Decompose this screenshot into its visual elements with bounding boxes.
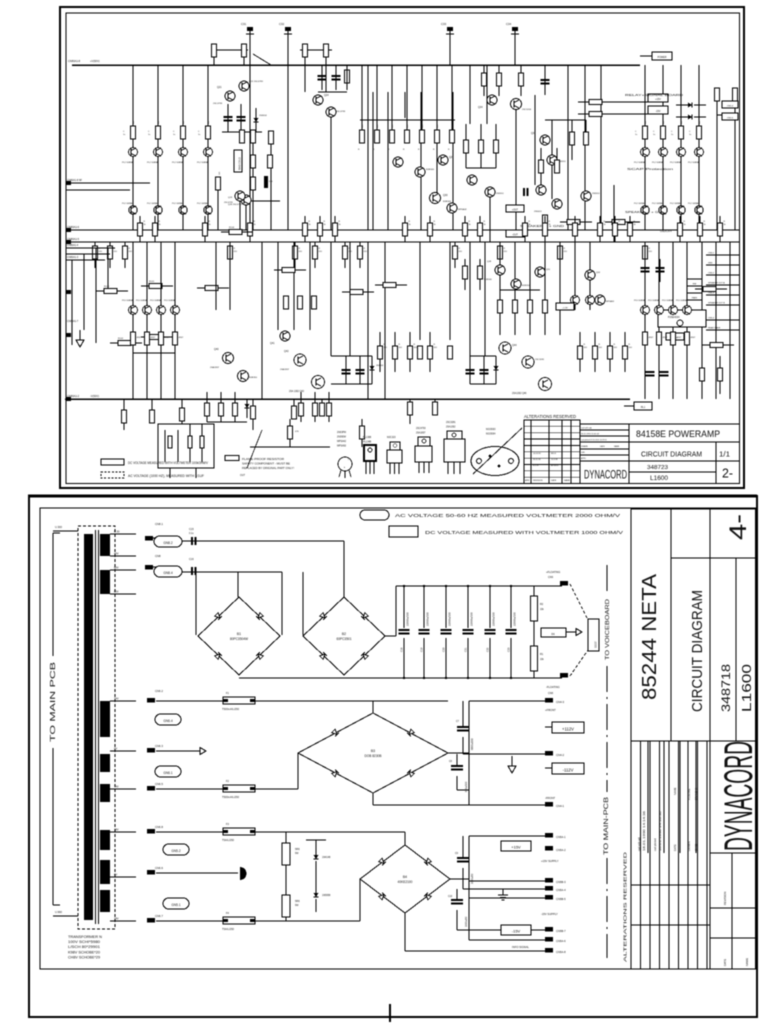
- resistor Rm320: [319, 216, 321, 223]
- resistor Rk5: [268, 155, 273, 168]
- wire ac1: [182, 540, 344, 542]
- transistor Ql161: [157, 306, 166, 315]
- connector CN5A-8: [545, 948, 553, 953]
- resistor Ro161: [159, 332, 164, 345]
- resistor Rq610: [609, 332, 611, 346]
- svg-text:60PC3501: 60PC3501: [336, 637, 351, 641]
- capacitor C18: [403, 586, 405, 628]
- connector CN5A-1: [545, 833, 553, 838]
- svg-text:-FRONT: -FRONT: [545, 796, 556, 800]
- resistor Rq395: [394, 332, 396, 346]
- transistor Qr645: [641, 306, 650, 315]
- svg-text:1u: 1u: [148, 134, 150, 136]
- svg-text:CIRCUIT DIAGRAM: CIRCUIT DIAGRAM: [689, 590, 706, 712]
- svg-text:Q21: Q21: [217, 86, 222, 89]
- resistor Rp4: [312, 296, 317, 309]
- svg-text:ALTERATIONS RESERVED: ALTERATIONS RESERVED: [623, 851, 629, 962]
- wire ac1 drop: [343, 541, 345, 597]
- wire vertical x161 lower: [160, 242, 162, 399]
- transistor Q38: [536, 185, 546, 195]
- wire right-edge CN3-2: [706, 274, 739, 276]
- wire driver feed: [360, 119, 455, 121]
- wire vertical x702 lower: [701, 242, 703, 399]
- wire b3 ac1 drop: [372, 701, 374, 713]
- inductor Lo1: [164, 430, 166, 462]
- connector GN6 oval B: [155, 766, 181, 777]
- node input arrow: [79, 330, 81, 340]
- svg-text:PL5 5088A: PL5 5088A: [150, 299, 161, 302]
- svg-text:DATE: DATE: [673, 844, 677, 851]
- svg-text:1u: 1u: [198, 134, 200, 136]
- wire vertical x437 upper: [436, 92, 438, 193]
- resistor Rg699: [697, 126, 702, 139]
- resistor Ri4: [612, 220, 625, 225]
- node C33 stub: [449, 30, 451, 65]
- resistor Rd6: [451, 65, 453, 130]
- wire relay bus: [614, 101, 648, 103]
- svg-text:CN8: CN8: [155, 554, 161, 558]
- wire vertical x716 lower: [715, 242, 717, 399]
- svg-text:1N4148: 1N4148: [322, 856, 331, 859]
- svg-text:CN5B-7: CN5B-7: [556, 929, 566, 933]
- svg-text:1u: 1u: [671, 134, 673, 136]
- svg-text:MJE350: MJE350: [249, 377, 258, 379]
- resistor R1: [531, 646, 538, 671]
- top page outer border: [60, 7, 744, 488]
- resistor Rn560: [559, 242, 561, 246]
- net PA9K box: [687, 293, 702, 300]
- wire f3 in: [162, 831, 223, 833]
- svg-text:C20: C20: [443, 647, 446, 652]
- wire f1 in: [162, 700, 223, 702]
- svg-text:Q42: Q42: [284, 350, 289, 353]
- svg-text:CN6.7: CN6.7: [155, 914, 163, 918]
- svg-text:680u/100: 680u/100: [465, 781, 468, 792]
- svg-text:CH8V SCHOBE*29: CH8V SCHOBE*29: [68, 956, 100, 960]
- resistor R5: [285, 832, 287, 843]
- wire vertical x735 upper: [734, 101, 736, 230]
- diode D42: [494, 366, 499, 370]
- wire vertical x368 upper: [367, 65, 369, 230]
- svg-text:0V: 0V: [114, 747, 117, 751]
- resistor R29: [345, 70, 350, 83]
- svg-text:AC VOLTAGE 50-60 HZ MEASURED V: AC VOLTAGE 50-60 HZ MEASURED VOLTMETER 2…: [395, 513, 620, 518]
- transistor Qg681: [677, 148, 686, 157]
- svg-text:348718: 348718: [719, 664, 733, 712]
- bridge rectifier B1: [198, 597, 280, 675]
- resistor Rq595: [594, 332, 596, 346]
- title block top page: [580, 424, 740, 484]
- svg-text:C10: C10: [448, 896, 453, 898]
- resistor Ro147: [145, 332, 150, 345]
- svg-text:PL5 5088A: PL5 5088A: [164, 299, 175, 302]
- svg-text:348723: 348723: [647, 465, 668, 471]
- svg-text:APM: APM: [525, 479, 530, 482]
- wire d7 top: [306, 839, 326, 841]
- resistor Rd1: [376, 65, 378, 130]
- ground 15v: [502, 889, 504, 895]
- wire vertical x385 lower: [384, 242, 386, 399]
- wire cn bundle 3: [66, 259, 105, 261]
- wire vertical x500 lower: [499, 242, 501, 335]
- svg-text:+FLOATING: +FLOATING: [546, 570, 560, 574]
- resistor R26: [242, 44, 247, 57]
- net OUT2 box: [506, 230, 524, 237]
- svg-text:4-: 4-: [725, 514, 752, 540]
- svg-text:CN80A1-6: CN80A1-6: [67, 225, 80, 229]
- net mid rail B: [66, 241, 740, 243]
- transistor Q42: [294, 354, 306, 366]
- wire vertical x717 upper: [716, 101, 718, 230]
- svg-text:C32: C32: [279, 22, 285, 26]
- resistor Rk1: [240, 130, 245, 143]
- wire front - out: [372, 793, 374, 805]
- svg-text:Q26 2SC4793: Q26 2SC4793: [228, 204, 243, 206]
- svg-text:PL130B: PL130B: [363, 437, 372, 439]
- svg-text:MG.K: MG.K: [551, 453, 557, 455]
- svg-text:T500mA/L/250: T500mA/L/250: [222, 795, 240, 799]
- dashed link bottom: [570, 650, 588, 676]
- resistor Rd5: [436, 65, 438, 130]
- resistor Rn125: [124, 242, 126, 246]
- capacitor C7: [457, 726, 469, 728]
- transistor Q41: [280, 331, 290, 341]
- connector CN5A-4: [545, 886, 553, 891]
- svg-text:5R6: 5R6: [295, 900, 300, 903]
- transistor Q40L: [223, 353, 234, 364]
- net RM box: [687, 279, 702, 286]
- capacitor C41: [342, 369, 351, 371]
- wire vertical x262 lower: [261, 242, 263, 399]
- svg-text:1k: 1k: [434, 224, 436, 226]
- capacitor C29: [523, 188, 525, 196]
- fuse F1: [223, 697, 255, 704]
- transistor Q158u: [154, 148, 163, 157]
- svg-text:C16: C16: [189, 558, 194, 561]
- resistor Re1: [480, 124, 482, 140]
- svg-text:U.30: U.30: [114, 530, 120, 534]
- svg-text:PL2 5088A: PL2 5088A: [197, 202, 208, 205]
- diode D41: [370, 366, 375, 370]
- wire right-edge CN3-3: [706, 294, 739, 296]
- svg-text:1k: 1k: [254, 224, 256, 226]
- svg-text:B1: B1: [237, 632, 241, 636]
- svg-text:CN80A1-8 NF: CN80A1-8 NF: [67, 179, 83, 182]
- svg-text:PL2 5088A: PL2 5088A: [122, 202, 133, 205]
- node C31 stub: [249, 30, 251, 65]
- wire vertical x288 upper: [287, 65, 289, 230]
- title block bottom page: [631, 509, 756, 969]
- transformer primary winding: [84, 534, 93, 920]
- svg-text:2N390W: 2N390W: [337, 437, 347, 439]
- resistor Rm680: [679, 216, 681, 223]
- svg-text:2N5551: 2N5551: [592, 193, 600, 195]
- transformer secondary winding 830: [100, 830, 110, 850]
- resistor Ro133: [131, 332, 136, 345]
- resistor Rm545: [544, 216, 546, 223]
- resistor Rs4: [718, 368, 723, 381]
- svg-text:CN5B-5: CN5B-5: [556, 897, 566, 901]
- wire vertical x294 lower: [293, 242, 295, 330]
- capacitor C42: [356, 369, 365, 371]
- wire b3 ac2 drop: [297, 753, 299, 789]
- node frame entry y292: [66, 290, 71, 294]
- transistor Q33: [485, 187, 495, 197]
- transformer tap U.30/534: [110, 533, 136, 535]
- svg-text:1N5958: 1N5958: [322, 894, 331, 897]
- transistor Q37: [547, 155, 557, 165]
- wire vertical x699 upper: [698, 65, 700, 230]
- svg-text:PL2 5088A: PL2 5088A: [688, 161, 699, 164]
- transformer dashed box: [78, 526, 115, 929]
- svg-text:CN5A-1: CN5A-1: [556, 835, 566, 839]
- wire front + out: [469, 700, 545, 702]
- svg-text:CN5A-2: CN5A-2: [556, 848, 566, 852]
- svg-text:Q41: Q41: [270, 342, 275, 345]
- svg-text:BIAS COLD: BIAS COLD: [239, 157, 242, 170]
- wire vertical x515 lower: [514, 242, 516, 335]
- resistor Rm140: [139, 216, 141, 223]
- transistor Q31: [447, 203, 457, 213]
- wire vertical x175 lower: [174, 242, 176, 399]
- svg-text:1k: 1k: [144, 224, 146, 226]
- resistor Rp1: [282, 268, 295, 273]
- svg-text:C22: C22: [487, 647, 490, 652]
- wire left v2: [83, 254, 85, 330]
- resistor Rc158a: [156, 126, 161, 139]
- wire vertical x560 lower: [559, 242, 561, 335]
- svg-text:CHKD: CHKD: [694, 844, 698, 851]
- svg-text:18V: 18V: [114, 917, 119, 921]
- wire vertical x350 lower: [349, 242, 351, 356]
- svg-text:80V: 80V: [114, 566, 119, 570]
- svg-text:1k: 1k: [604, 224, 606, 226]
- resistor Rl3: [118, 341, 131, 346]
- svg-text:PL2 5088A: PL2 5088A: [172, 161, 183, 164]
- svg-text:-15V SUPPLY: -15V SUPPLY: [541, 912, 558, 916]
- node frame entry y230: [66, 228, 71, 232]
- wire left v3: [95, 248, 97, 343]
- capacitor C43: [466, 369, 475, 371]
- wire right bus v: [613, 185, 615, 242]
- svg-text:C19: C19: [421, 647, 424, 652]
- resistor Rk4: [251, 155, 256, 168]
- diode Dk1: [264, 176, 268, 188]
- resistor Rq430: [429, 332, 431, 346]
- wire front mid: [463, 753, 545, 755]
- svg-text:1u: 1u: [123, 134, 125, 136]
- svg-text:18V: 18V: [114, 828, 119, 832]
- svg-text:MJE340: MJE340: [426, 169, 435, 171]
- svg-text:NAME: NAME: [564, 479, 570, 482]
- svg-text:PL2 5088A: PL2 5088A: [122, 161, 133, 164]
- svg-text:CN2-4: CN2-4: [727, 106, 734, 108]
- svg-text:CN80A1-7: CN80A1-7: [67, 320, 79, 323]
- capacitor C20: [445, 586, 447, 628]
- svg-text:PL2 5088A: PL2 5088A: [197, 161, 208, 164]
- transformer tap 18V/921: [110, 920, 136, 922]
- svg-text:PL2 5088A: PL2 5088A: [147, 161, 158, 164]
- svg-text:1k: 1k: [549, 224, 551, 226]
- transformer secondary winding 860: [100, 860, 110, 884]
- wire vertical x470 upper: [469, 65, 471, 124]
- transistor Q28: [415, 167, 425, 177]
- svg-text:C33: C33: [441, 22, 447, 26]
- svg-text:CN4-2: CN4-2: [556, 753, 565, 757]
- svg-text:NAME: NAME: [614, 445, 620, 448]
- svg-text:100V SCHI*5980: 100V SCHI*5980: [68, 940, 100, 944]
- svg-text:2SA1837: 2SA1837: [416, 432, 426, 435]
- svg-text:1u: 1u: [173, 134, 175, 136]
- resistor Rn315: [314, 242, 316, 246]
- net +15V box: [501, 841, 531, 851]
- svg-text:RELAY+SIGNAL BOARD: RELAY+SIGNAL BOARD: [625, 94, 683, 97]
- connector CN5A-6: [545, 937, 553, 942]
- resistor R61: [206, 392, 208, 403]
- transformer secondary winding 701: [100, 701, 110, 737]
- resistor Rc183a: [181, 126, 186, 139]
- wire vertical x271 upper: [270, 143, 272, 230]
- resistor Rm335: [334, 216, 336, 223]
- connector CN5A-2: [545, 846, 553, 851]
- resistor Rk6: [251, 177, 256, 190]
- resistor Rr659: [657, 332, 662, 345]
- wire vertical x470 lower: [469, 242, 471, 356]
- wire right-edge SPEAKER OUT B: [706, 304, 739, 306]
- capacitor C8: [451, 765, 463, 767]
- svg-text:18.01.1990 14:14:36: 18.01.1990 14:14:36: [642, 810, 646, 851]
- wire vertical x133 upper: [132, 65, 134, 230]
- resistor Ri5: [543, 215, 548, 228]
- svg-text:c: c: [348, 459, 349, 461]
- transistor Q22: [239, 81, 249, 91]
- wire rc link: [545, 119, 586, 121]
- transistor Q183u: [179, 148, 188, 157]
- svg-text:GND: GND: [708, 263, 713, 265]
- svg-text:SAFETY COMPONENT - MUST BE: SAFETY COMPONENT - MUST BE: [242, 462, 290, 466]
- svg-text:RM: RM: [693, 284, 697, 286]
- diode D26: [688, 115, 692, 120]
- transistor Q24: [313, 95, 323, 105]
- wire 15v mid1: [469, 880, 545, 882]
- resistor Rf3: [519, 73, 524, 86]
- svg-text:GN8.2: GN8.2: [163, 541, 172, 545]
- svg-text:MPSA42: MPSA42: [337, 440, 347, 443]
- svg-text:CN5A-8: CN5A-8: [556, 950, 566, 954]
- svg-text:R141: R141: [149, 281, 155, 283]
- resistor Rm465: [464, 216, 466, 223]
- svg-text:CN6.6: CN6.6: [155, 866, 163, 870]
- svg-text:2N03PM: 2N03PM: [337, 432, 346, 434]
- wire nf input: [66, 182, 150, 184]
- resistor Rl2: [149, 284, 162, 289]
- svg-text:CN3-4: CN3-4: [708, 318, 715, 320]
- svg-text:CN4-1: CN4-1: [556, 804, 565, 808]
- connector CN4-2: [545, 751, 553, 756]
- svg-text:2-: 2-: [722, 466, 733, 481]
- resistor Rd0: [361, 65, 363, 130]
- wire vertical x487 upper: [486, 65, 488, 124]
- resistor Rs1: [703, 287, 716, 292]
- wire vertical x183 upper: [182, 65, 184, 230]
- wire right-edge CN3-4: [706, 319, 739, 321]
- svg-text:11137: 11137: [594, 641, 598, 648]
- svg-text:L1600: L1600: [739, 664, 754, 712]
- capacitor C48: [656, 267, 665, 269]
- wire vertical x453 upper: [452, 92, 454, 230]
- wire right-edge GND: [706, 264, 739, 266]
- svg-text:POWER: POWER: [657, 56, 666, 59]
- transistor Q21: [225, 91, 235, 101]
- transistor Qm208: [204, 206, 212, 214]
- svg-text:14.05.90: 14.05.90: [533, 453, 542, 455]
- capacitor C19: [423, 586, 425, 628]
- svg-text:CN6.2: CN6.2: [155, 689, 163, 693]
- svg-text:2SA1302 Q46: 2SA1302 Q46: [512, 392, 527, 395]
- net -V rail: [65, 398, 630, 400]
- resistor R68: [292, 406, 297, 419]
- ground front: [511, 756, 513, 766]
- svg-text:B4: B4: [403, 875, 407, 879]
- svg-text:RL1: RL1: [641, 406, 646, 409]
- svg-text:1k: 1k: [309, 224, 311, 226]
- capacitor C22: [489, 586, 491, 628]
- svg-text:MPSA42: MPSA42: [458, 208, 467, 211]
- svg-text:PL2 5088A: PL2 5088A: [147, 202, 158, 205]
- svg-text:DOB 8230B: DOB 8230B: [364, 754, 381, 758]
- resistor Rf2: [497, 73, 502, 86]
- svg-text:U.300: U.300: [55, 525, 62, 529]
- resistor Rm575: [574, 216, 576, 223]
- relay RL2 box: [658, 310, 706, 327]
- transformer tap 0V/751: [110, 750, 136, 752]
- svg-text:R140: R140: [104, 286, 110, 288]
- svg-text:2SC4793: 2SC4793: [213, 103, 223, 105]
- resistor Rq380: [379, 332, 381, 346]
- resistor Ri1: [539, 160, 544, 173]
- resistor R69: [320, 403, 325, 416]
- svg-text:80V: 80V: [114, 590, 119, 594]
- svg-text:40V: 40V: [114, 552, 119, 556]
- resistor R27: [303, 44, 308, 57]
- diode D7: [315, 840, 317, 855]
- wire vertical x368 lower: [367, 242, 369, 399]
- resistor R75: [200, 436, 204, 448]
- svg-text:CN80A1-8: CN80A1-8: [68, 59, 81, 63]
- svg-text:GN8.4: GN8.4: [163, 571, 172, 575]
- wire vertical x485 lower: [484, 242, 486, 356]
- svg-text:-15V: -15V: [655, 110, 660, 113]
- top page inner border: [66, 13, 740, 484]
- svg-text:REVISION: REVISION: [723, 892, 727, 905]
- svg-text:CN4-3: CN4-3: [556, 700, 565, 704]
- svg-text:PL5 5088A: PL5 5088A: [634, 299, 645, 302]
- wire vertical x659 lower: [658, 242, 660, 399]
- resistor Rl4: [149, 335, 162, 340]
- wire right-edge SPEAKER OUT A: [706, 284, 739, 286]
- wire vertical x250 upper: [249, 65, 251, 230]
- svg-text:26.11.90: 26.11.90: [533, 459, 542, 461]
- resistor Rm615: [614, 216, 616, 223]
- resistor Rn230: [229, 242, 231, 246]
- svg-text:MJ15003: MJ15003: [486, 429, 496, 431]
- resistor R28: [324, 44, 329, 57]
- svg-text:+15V: +15V: [511, 845, 521, 850]
- capacitor C21: [224, 116, 233, 118]
- svg-text:1N4004: 1N4004: [259, 115, 267, 117]
- svg-text:1k: 1k: [324, 224, 326, 226]
- wire vertical x673 lower: [672, 242, 674, 399]
